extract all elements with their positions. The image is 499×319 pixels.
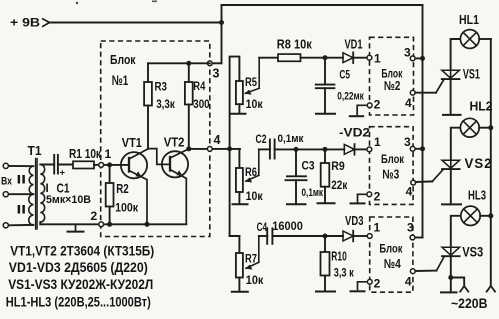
resistor R1 — [73, 161, 94, 168]
junction HL2 rail — [488, 125, 493, 130]
label Blok 3 — [381, 152, 405, 166]
junction R9 top — [323, 147, 328, 152]
diode VD2 — [344, 144, 354, 155]
resistor R2 — [106, 165, 114, 224]
label C3 — [302, 159, 315, 173]
label pin 3 — [213, 67, 220, 81]
junction rail to block3 pin3 — [420, 146, 425, 151]
label R7 value — [246, 273, 264, 287]
label R5 — [245, 75, 257, 89]
svg-text:Вх: Вх — [1, 176, 13, 188]
svg-text:3,3к: 3,3к — [156, 97, 175, 111]
svg-text:3: 3 — [404, 46, 411, 60]
wire VS2 cathode — [450, 169, 452, 203]
block4 pin 4 — [410, 269, 415, 274]
svg-text:2: 2 — [374, 98, 381, 112]
svg-text:10к: 10к — [246, 189, 264, 203]
label winding II bottom — [17, 205, 27, 217]
label R9 — [331, 159, 345, 173]
block2 pin 4 — [410, 90, 415, 95]
resistor R6 — [236, 149, 243, 203]
label winding I — [46, 183, 49, 195]
speck — [152, 1, 157, 3]
lamp HL2 — [460, 118, 479, 137]
wire R8 to VD1 — [301, 57, 344, 59]
label b3 pin1 — [374, 135, 381, 149]
label C4 — [257, 220, 268, 234]
svg-text:№3: №3 — [382, 167, 399, 182]
label C3 value — [302, 187, 324, 199]
transistor VT2 — [162, 149, 189, 224]
junction C3 top — [294, 147, 299, 152]
svg-text:1: 1 — [374, 220, 381, 234]
label b3 pin3 — [404, 135, 411, 149]
junction R4 bottom — [186, 146, 191, 151]
ground R9 — [318, 202, 335, 204]
svg-text:0,22мк: 0,22мк — [337, 90, 364, 102]
label pin 4 — [214, 133, 221, 147]
svg-text:R3: R3 — [155, 79, 168, 93]
label C2 — [256, 132, 267, 146]
block3 pin 1 — [367, 147, 372, 152]
wire R1 to pin1 — [94, 164, 99, 166]
wire riser to R5 — [230, 57, 240, 149]
block 4 dashed border — [370, 217, 413, 292]
svg-text:4: 4 — [405, 274, 412, 288]
wire wiper to C4 — [259, 235, 267, 237]
label 220V — [451, 296, 488, 311]
svg-text:VS2: VS2 — [465, 156, 493, 171]
capacitor C5 — [316, 58, 335, 113]
svg-text:C3: C3 — [302, 159, 315, 173]
svg-text:VD1: VD1 — [345, 37, 363, 52]
label R2 — [116, 182, 129, 196]
svg-text:1: 1 — [374, 52, 381, 66]
resistor R8 — [278, 54, 301, 61]
label winding II top — [17, 175, 27, 187]
junction C5 top — [323, 55, 328, 60]
svg-text:22к: 22к — [331, 180, 347, 192]
wire C2 to VD2 — [275, 148, 345, 150]
svg-text:Блок: Блок — [110, 53, 136, 67]
wire 220V right rail — [490, 39, 492, 285]
label HL3 — [468, 188, 486, 202]
lamp HL1 — [460, 30, 479, 49]
svg-text:3: 3 — [407, 220, 414, 234]
label +9V supply — [10, 16, 40, 30]
svg-text:100к: 100к — [115, 201, 139, 215]
label R10 value — [334, 267, 354, 279]
block4 pin 3 — [410, 235, 415, 240]
svg-text:II: II — [17, 175, 27, 187]
label VD1 — [345, 37, 363, 52]
svg-text:0,1мк: 0,1мк — [278, 133, 304, 145]
ground R10 — [316, 291, 335, 293]
svg-text:HL3: HL3 — [468, 188, 486, 202]
label b4 pin4 — [405, 274, 412, 288]
block4 pin 1 — [367, 234, 372, 239]
svg-text:R9: R9 — [331, 159, 345, 173]
transistor VT1 — [121, 149, 148, 224]
svg-text:№4: №4 — [384, 256, 402, 271]
wire wiper to C2 — [259, 148, 270, 150]
ground R6 — [233, 203, 248, 205]
wire HL2 right to rail — [479, 127, 491, 129]
block2 pin 1 — [367, 55, 372, 60]
label HL1 — [459, 13, 479, 27]
wire pin4 to row junction — [213, 148, 241, 150]
label b3 pin4 — [406, 185, 413, 199]
wire VS1 cathode — [450, 79, 452, 114]
label N1 — [112, 72, 129, 88]
label N4 — [384, 256, 402, 271]
svg-text:№1: №1 — [112, 72, 129, 88]
svg-text:300: 300 — [193, 97, 210, 111]
junction R10 top — [323, 234, 328, 239]
svg-text:VS1-VS3 КУ202Ж-КУ202Л: VS1-VS3 КУ202Ж-КУ202Л — [8, 276, 153, 292]
ground C5 — [316, 113, 335, 115]
label R4 value — [193, 97, 210, 111]
block1 pin 4 — [207, 147, 212, 152]
block3 pin 4 — [411, 180, 416, 185]
label C1 value — [46, 194, 91, 206]
label VS2 — [465, 156, 493, 171]
label R9 value — [331, 180, 347, 192]
junction R2 top — [107, 162, 112, 167]
label b2 pin1 — [374, 52, 381, 66]
block3 pin 3 — [410, 146, 415, 151]
capacitor C4 — [267, 228, 272, 244]
svg-text:3,3 к: 3,3 к — [334, 267, 354, 279]
label C2 value — [278, 133, 304, 145]
junction rail to block2 pin3 — [420, 56, 425, 61]
label VS3 — [462, 244, 483, 259]
svg-text:+: + — [60, 168, 66, 179]
diode VD3 — [343, 231, 353, 242]
junction VS3 cathode to mains — [448, 275, 453, 280]
svg-text:3: 3 — [213, 67, 220, 81]
wire secondary top to C1 — [40, 164, 54, 166]
wire HL3 right to rail — [480, 215, 491, 217]
wire VT1 collector to R3 node — [147, 148, 149, 150]
svg-text:3: 3 — [404, 135, 411, 149]
label C4 value — [272, 221, 303, 233]
mains arrow left — [460, 286, 469, 292]
label VT1 — [122, 135, 142, 150]
label VD3 — [345, 214, 364, 228]
block 1 dashed border — [101, 41, 210, 237]
label pin 1 — [105, 147, 112, 161]
wire HL1 left to VS1 anode — [451, 39, 461, 70]
svg-text:R1 10к: R1 10к — [69, 147, 102, 161]
junction pin4 node — [227, 146, 232, 151]
wire rail to block4 pin3 — [413, 237, 423, 239]
thyristor VS3 — [442, 247, 460, 256]
wire R7 wiper — [246, 236, 259, 269]
label R4 — [193, 79, 205, 93]
svg-text:0,1мк: 0,1мк — [302, 187, 324, 199]
wire node1 to VT1 base — [104, 164, 129, 166]
svg-text:VS3: VS3 — [462, 244, 483, 259]
wire rail to block2 pin3 — [413, 57, 423, 59]
svg-text:Блок: Блок — [379, 241, 403, 255]
label HL2 — [470, 100, 493, 114]
wire vertical +9V riser — [221, 5, 223, 63]
wire VD1 to block2 pin1 — [353, 57, 367, 59]
resistor R9 — [321, 149, 330, 202]
svg-text:VS1: VS1 — [463, 66, 480, 81]
legend line 4 — [6, 293, 151, 309]
block2 pin 2 — [367, 103, 372, 108]
label b2 pin4 — [405, 96, 412, 110]
ground R7 — [232, 291, 248, 293]
transformer T1 secondary winding I — [40, 165, 44, 223]
svg-text:2: 2 — [374, 189, 381, 203]
svg-text:№2: №2 — [384, 78, 401, 93]
svg-text:+ 9В: + 9В — [10, 16, 40, 30]
svg-text:HL2: HL2 — [470, 100, 493, 114]
input terminal top — [3, 163, 33, 168]
label VD2 — [339, 126, 370, 140]
legend line 3 — [8, 276, 153, 292]
svg-text:T1: T1 — [28, 143, 42, 158]
label R7 — [245, 251, 257, 265]
wire b3 pin4 to VS2 gate — [416, 169, 444, 182]
wire HL3 left to VS3 anode — [451, 216, 461, 248]
svg-text:-VD2: -VD2 — [339, 126, 370, 140]
label R2 value — [115, 201, 139, 215]
block 2 dashed border — [370, 37, 414, 115]
transformer T1 primary winding II top — [29, 166, 33, 194]
label T1 — [28, 143, 42, 158]
junction R2 bottom rail — [107, 222, 112, 227]
label b4 pin3 — [407, 220, 414, 234]
label Blok — [110, 53, 136, 67]
diode VD1 — [343, 52, 353, 63]
svg-text:4: 4 — [405, 96, 412, 110]
input terminal bottom — [3, 223, 33, 228]
svg-text:10к: 10к — [246, 97, 264, 111]
legend line 1 — [10, 242, 154, 258]
label C5 — [339, 68, 350, 82]
svg-text:VD3: VD3 — [345, 214, 364, 228]
svg-text:R8 10к: R8 10к — [277, 37, 312, 52]
wire VD3 to block4 pin1 — [353, 235, 367, 237]
label R10 — [331, 249, 347, 263]
label R6 value — [246, 189, 264, 203]
wire cathode to mains arrow — [451, 278, 464, 287]
label R3 — [155, 79, 168, 93]
ground at transformer common — [68, 224, 84, 231]
block 3 dashed border — [370, 127, 414, 205]
label VS1 — [463, 66, 480, 81]
wire HL2 left to VS2 anode — [451, 128, 461, 161]
label Blok 4 — [379, 241, 403, 255]
label R5 value — [246, 97, 264, 111]
svg-text:1: 1 — [374, 135, 381, 149]
label C1 — [57, 182, 70, 196]
svg-text:VT1,VT2 2Т3604 (КТ315Б): VT1,VT2 2Т3604 (КТ315Б) — [10, 242, 154, 258]
speck — [76, 2, 78, 4]
capacitor C1 — [54, 155, 65, 179]
wire block1 pin3 to riser — [213, 62, 222, 64]
block4 pin 2 — [367, 279, 372, 284]
svg-text:C2: C2 — [256, 132, 267, 146]
wire HL1 right to rail — [479, 38, 491, 40]
svg-text:HL1-HL3 (220В,25...1000Вт): HL1-HL3 (220В,25...1000Вт) — [6, 293, 151, 309]
ground block2 pin2 — [350, 105, 367, 116]
junction VT1 emitter rail — [145, 222, 150, 227]
svg-text:VD1-VD3 2Д5605 (Д220): VD1-VD3 2Д5605 (Д220) — [9, 259, 148, 275]
transformer T1 core — [36, 159, 38, 230]
wire R5 wiper — [245, 58, 259, 95]
lamp HL3 — [461, 206, 480, 225]
label b4 pin1 — [374, 220, 381, 234]
label R1 value — [69, 147, 102, 161]
label N2 — [384, 78, 401, 93]
label b2 pin2 — [374, 98, 381, 112]
label VT2 — [164, 135, 185, 150]
wire VS3 cathode — [450, 256, 452, 291]
label N3 — [382, 167, 399, 182]
thyristor VS1 — [442, 70, 460, 79]
svg-text:1: 1 — [105, 147, 112, 161]
capacitor C3 — [286, 149, 307, 203]
svg-text:II: II — [17, 205, 27, 217]
svg-text:10к: 10к — [246, 273, 264, 287]
wire secondary bottom to rail — [40, 222, 98, 224]
svg-text:R2: R2 — [116, 182, 129, 196]
label b3 pin2 — [374, 189, 381, 203]
thyristor VS2 — [442, 160, 460, 169]
svg-text:C4: C4 — [257, 220, 268, 234]
ground block4 pin2 — [351, 282, 367, 292]
label b2 pin3 — [404, 46, 411, 60]
resistor R10 — [321, 236, 330, 290]
cathode end bar VS1 — [443, 114, 461, 116]
ground C3 — [287, 203, 306, 205]
junction HL3 rail — [488, 213, 493, 218]
block2 pin 3 — [410, 56, 415, 61]
svg-text:R5: R5 — [245, 75, 257, 89]
svg-text:R4: R4 — [193, 79, 205, 93]
wire VD2 to block3 pin1 — [353, 148, 367, 150]
label R6 — [245, 165, 257, 179]
resistor R4 — [185, 63, 193, 149]
junction +9V node — [219, 20, 224, 25]
svg-text:Блок: Блок — [381, 152, 405, 166]
label Blok 2 — [381, 66, 403, 80]
block3 pin 2 — [367, 192, 372, 197]
block1 pin 2 — [99, 222, 104, 227]
svg-text:HL1: HL1 — [459, 13, 479, 27]
svg-text:16000: 16000 — [272, 221, 303, 233]
wire emitter rail — [104, 223, 186, 225]
label b4 pin2 — [374, 276, 381, 290]
wire internal top rail — [148, 62, 210, 64]
svg-text:4: 4 — [214, 133, 221, 147]
wire R6 wiper — [246, 149, 259, 182]
block1 pin 3 — [207, 61, 212, 66]
ground R5 — [230, 113, 246, 115]
svg-text:VT2: VT2 — [164, 135, 185, 150]
label R3 value — [156, 97, 175, 111]
label Vkh input — [1, 176, 13, 188]
block1 pin 1 — [99, 163, 104, 168]
ground block3 pin2 — [351, 194, 367, 203]
wire C4 to VD3 — [272, 235, 343, 237]
legend line 2 — [9, 259, 148, 275]
wire wiper to R8 — [259, 57, 278, 59]
svg-text:C5: C5 — [339, 68, 350, 82]
label C5 value — [337, 90, 364, 102]
resistor R5 — [236, 57, 243, 113]
transformer T1 primary winding II bottom — [29, 194, 34, 225]
wire top supply rail — [222, 4, 423, 6]
svg-text:2: 2 — [374, 276, 381, 290]
wire b4 pin4 to VS3 gate — [415, 257, 443, 271]
resistor R3 — [144, 63, 152, 148]
wire C1 to R1 — [58, 164, 73, 166]
cathode end bar VS2 — [442, 203, 461, 205]
capacitor C2 — [270, 140, 275, 159]
wire +9V to top junction — [50, 22, 222, 24]
svg-text:~220В: ~220В — [451, 296, 488, 311]
svg-text:5мк×10В: 5мк×10В — [46, 194, 91, 206]
wire VT1 collector to VT2 base jog — [148, 149, 170, 165]
svg-text:R10: R10 — [331, 249, 347, 263]
mains arrow right — [486, 286, 495, 292]
resistor R7 — [230, 236, 243, 291]
wire b2 pin4 to VS1 gate — [415, 80, 443, 93]
label pin 2 — [91, 209, 98, 223]
wire VT2 collector to pin4 — [189, 148, 207, 150]
svg-text:4: 4 — [406, 185, 413, 199]
cathode end bar VS3 — [441, 291, 457, 293]
svg-text:2: 2 — [91, 209, 98, 223]
svg-text:VT1: VT1 — [122, 135, 142, 150]
input terminal middle — [3, 192, 33, 197]
wire rail to block3 pin3 — [413, 148, 423, 150]
label R8 value — [277, 37, 312, 52]
connector arrow +9V — [42, 19, 50, 27]
wire right supply rail down to blocks pin3 — [422, 5, 424, 238]
wire dropper to R7 — [230, 149, 240, 236]
junction R4 top — [186, 61, 191, 66]
